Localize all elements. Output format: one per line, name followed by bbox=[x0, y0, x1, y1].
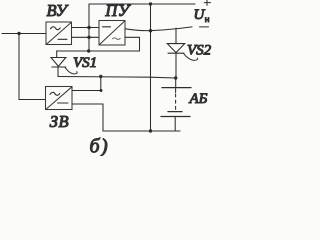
inverter PU box bbox=[99, 21, 125, 46]
svg-text:н: н bbox=[205, 14, 210, 24]
wire: ZV bottom tie down to bottom rail bbox=[102, 104, 104, 131]
wire: VU out bottom to PU bbox=[72, 36, 100, 38]
node: bus bottom wire bbox=[87, 36, 90, 39]
svg-text:VS1: VS1 bbox=[73, 55, 97, 71]
wire: ZV output bottom bbox=[72, 103, 103, 105]
node: battery top junction bbox=[174, 76, 177, 79]
plus terminal bbox=[204, 0, 210, 5]
wire: VU out top to PU bbox=[72, 27, 100, 29]
charger ZV box bbox=[46, 87, 73, 110]
node: bus to VS1 wire bbox=[87, 49, 90, 52]
svg-text:ПУ: ПУ bbox=[104, 1, 131, 20]
wire: ZV top tie up to VS1 rail bbox=[100, 77, 102, 91]
node: bottom rail / vertical bbox=[149, 129, 152, 132]
svg-text:VS2: VS2 bbox=[187, 43, 212, 59]
wire: AC input to VU bbox=[2, 33, 46, 35]
wire: ZV output top bbox=[72, 90, 101, 92]
node: ZV top tie bbox=[100, 89, 103, 92]
wire: VS1 cathode rail to battery node bbox=[58, 77, 176, 79]
battery AB bbox=[161, 78, 191, 131]
node: rail / vertical x150 bbox=[149, 29, 152, 32]
svg-text:ЗВ: ЗВ bbox=[50, 112, 69, 131]
thyristor VS2 bbox=[167, 28, 197, 78]
svg-text:ВУ: ВУ bbox=[47, 1, 69, 20]
wire: left vertical down to ZV input bbox=[19, 34, 46, 100]
wire: vertical x150 full bbox=[150, 4, 152, 131]
svg-text:АБ: АБ bbox=[189, 91, 208, 107]
wire: PU top output rail to right bbox=[125, 27, 192, 31]
rectifier VU box bbox=[46, 22, 72, 45]
svg-text:U: U bbox=[194, 7, 206, 23]
wire: bottom rail bbox=[103, 130, 180, 132]
node: top rail / vertical bbox=[149, 2, 152, 5]
svg-text:б): б) bbox=[90, 136, 110, 157]
wire: vertical bus beside VU bbox=[88, 4, 90, 51]
node: ZV branch bbox=[99, 75, 102, 78]
wire: PU lower output loop down to VS1 wire bbox=[125, 37, 140, 51]
thyristor VS1 bbox=[51, 51, 77, 77]
wire: VS1 anode wire bbox=[57, 50, 140, 52]
wire: top output rail bbox=[89, 3, 195, 5]
minus terminal bbox=[200, 26, 209, 28]
node: bus top wire bbox=[87, 26, 90, 29]
node: input junction bbox=[17, 32, 20, 35]
